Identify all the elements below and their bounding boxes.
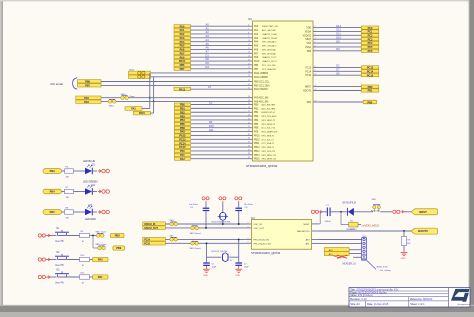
svg-text:Reference: MB1180: Reference: MB1180	[410, 298, 433, 301]
port label PC6 (right group 1)	[361, 49, 379, 53]
IC1B right pin stubs	[312, 224, 319, 244]
port label PA5 (column A row 6)	[174, 44, 191, 48]
solder bridge SB16	[121, 96, 129, 100]
wire PB7 to IC1	[191, 68, 247, 70]
svg-text:NX2012_32K768: NX2012_32K768	[212, 251, 229, 253]
svg-text:9: 9	[315, 70, 316, 72]
wire LED to power	[92, 211, 97, 213]
port label PA13 (singleton)	[174, 87, 191, 91]
svg-text:SPI1_MISO-T3: SPI1_MISO-T3	[262, 120, 276, 122]
svg-text:D1: D1	[206, 53, 210, 57]
svg-text:PA13: PA13	[179, 88, 186, 91]
wire PB6 to IC1	[191, 64, 247, 66]
svg-text:26: 26	[248, 107, 250, 109]
wire PA15 to IC1	[191, 134, 247, 136]
port label PC14	[143, 237, 166, 241]
svg-text:EVENTOUT-IO: EVENTOUT-IO	[262, 112, 276, 114]
svg-text:11: 11	[315, 85, 317, 87]
svg-text:PB0: PB0	[180, 104, 185, 107]
svg-text:PB6: PB6	[254, 65, 259, 67]
svg-text:PA6: PA6	[84, 101, 89, 104]
svg-text:10: 10	[315, 74, 317, 76]
LED LD2	[83, 180, 98, 195]
resistor R7 330	[65, 187, 74, 199]
port label PA3 (column A row 4)	[174, 36, 191, 40]
svg-text:32: 32	[248, 130, 250, 132]
svg-text:PB12: PB12	[254, 147, 260, 149]
svg-text:PA10: PA10	[179, 60, 186, 63]
ground below R3	[401, 251, 408, 261]
wire resistor to port	[90, 259, 93, 261]
svg-text:PB3: PB3	[50, 169, 56, 173]
svg-text:PA12-USBDP: PA12-USBDP	[254, 76, 268, 79]
power symbol red	[98, 210, 109, 213]
power symbol red right	[393, 210, 404, 213]
power symbol red	[98, 190, 109, 193]
svg-text:D10: D10	[209, 124, 214, 128]
port label PB8 (column B row 7)	[174, 126, 190, 130]
svg-text:25: 25	[248, 103, 250, 105]
svg-text:PA2: PA2	[131, 108, 136, 111]
svg-text:PA8: PA8	[180, 131, 185, 134]
resistor R8 330	[65, 208, 74, 220]
ground below C2	[235, 267, 242, 277]
solder bridge SB18	[108, 99, 116, 103]
port BOOT0	[411, 228, 438, 234]
svg-text:7: 7	[315, 49, 316, 51]
ST logo	[451, 289, 470, 306]
title block texts	[350, 289, 433, 306]
wire IC1 to PC4	[320, 42, 362, 44]
svg-text:PB11: PB11	[254, 143, 260, 145]
wire VCP_RX up to analog net	[150, 101, 153, 113]
svg-text:PC15: PC15	[367, 74, 374, 77]
svg-text:life.augmented: life.augmented	[458, 303, 470, 306]
svg-text:VDDIO2: VDDIO2	[303, 35, 312, 37]
svg-text:28: 28	[248, 115, 250, 117]
LED circuit LED BLUE	[43, 169, 65, 174]
svg-text:PA1: PA1	[180, 29, 185, 32]
wire resistor to LED	[74, 211, 86, 213]
svg-text:10n Filter: 10n Filter	[244, 203, 253, 206]
port label PA15 (column B row 9)	[174, 134, 190, 138]
svg-text:SPI2_SCK-T15: SPI2_SCK-T15	[262, 151, 277, 153]
svg-text:I2C1_SCL-T16: I2C1_SCL-T16	[262, 128, 276, 130]
svg-text:LD3: LD3	[88, 205, 93, 207]
wire PC14 to IC1	[191, 142, 247, 144]
brace for I2C group	[73, 78, 77, 89]
port label PF0 (column B row 13)	[174, 149, 190, 153]
svg-text:PF0-OSC32_IN: PF0-OSC32_IN	[254, 240, 270, 242]
wire BOOT0	[319, 230, 411, 232]
title block frame	[349, 288, 470, 307]
solder bridge SB8 Closed	[190, 241, 202, 250]
svg-text:PF0: PF0	[180, 150, 185, 153]
svg-text:PB7: PB7	[180, 68, 185, 71]
port label PC0 (right group 1)	[361, 26, 379, 30]
port label PB5 (column B row 6)	[174, 122, 190, 126]
svg-text:PB9: PB9	[116, 247, 121, 250]
svg-text:PC3: PC3	[368, 38, 373, 41]
svg-text:SPI1_NSS-IR: SPI1_NSS-IR	[262, 135, 275, 137]
crystal X1 NX3215SA	[212, 202, 231, 224]
port label PB3 (column B row 4)	[174, 115, 190, 119]
svg-text:PB13: PB13	[254, 151, 260, 153]
IC1 left pin stubs	[247, 25, 253, 159]
wire PB1 to IC1	[191, 107, 247, 109]
svg-text:I2C1_SCL-TIM: I2C1_SCL-TIM	[262, 65, 276, 67]
wire AT1 to header	[349, 253, 361, 255]
svg-text:PA15: PA15	[179, 135, 186, 138]
svg-text:PB6-I2C1_SCL: PB6-I2C1_SCL	[254, 82, 270, 84]
svg-text:WKUP-TIM2_CH1: WKUP-TIM2_CH1	[262, 26, 279, 28]
svg-text:VBAT: VBAT	[305, 38, 311, 41]
svg-text:PB1: PB1	[254, 108, 259, 110]
svg-text:PB4: PB4	[50, 190, 56, 194]
svg-text:VSSA: VSSA	[305, 46, 312, 49]
port label PA15 (VCP_RX)	[133, 111, 150, 115]
wire IC1 to PC15	[320, 74, 362, 76]
svg-text:2: 2	[248, 222, 249, 224]
wire PC15 to IC1B	[165, 242, 246, 244]
port label PB1 (column B row 2)	[174, 107, 190, 111]
svg-text:Size: A4: Size: A4	[350, 303, 360, 306]
svg-text:4: 4	[248, 238, 249, 240]
svg-text:33: 33	[248, 134, 250, 136]
svg-text:USART2_RX-A3: USART2_RX-A3	[262, 37, 278, 40]
wire LED to power	[92, 170, 97, 172]
svg-text:PA7: PA7	[180, 52, 185, 55]
svg-text:D3: D3	[336, 47, 340, 51]
svg-text:9: 9	[248, 36, 249, 38]
svg-text:GND: GND	[401, 258, 406, 260]
junction	[153, 100, 155, 102]
svg-text:4: 4	[315, 38, 316, 40]
wire resistor to port	[90, 276, 93, 278]
svg-text:I2C serial: I2C serial	[51, 82, 64, 86]
svg-text:PA15: PA15	[139, 112, 145, 115]
svg-text:PC2: PC2	[368, 34, 373, 37]
note text AVDD shifting	[377, 266, 391, 272]
svg-text:D4: D4	[206, 65, 210, 69]
junction C3	[238, 223, 240, 225]
svg-text:17: 17	[248, 67, 250, 69]
svg-text:PC13: PC13	[305, 67, 311, 69]
wire PA3 to IC1	[191, 37, 247, 39]
svg-text:PB15: PB15	[254, 159, 260, 161]
wire PA4 to IC1	[191, 41, 247, 43]
svg-text:PC15: PC15	[305, 75, 311, 77]
svg-text:PB3: PB3	[254, 116, 259, 118]
wire NRST pull branch	[341, 212, 349, 225]
svg-text:D12: D12	[336, 28, 341, 32]
wire AT0 to header	[349, 249, 361, 251]
svg-text:PC14: PC14	[367, 70, 374, 73]
port label PA1 (column A row 2)	[174, 29, 191, 33]
svg-text:GND: GND	[235, 275, 240, 277]
crystal X2 NX2012	[207, 251, 239, 262]
svg-text:SPI1_SCK-ADC: SPI1_SCK-ADC	[262, 45, 277, 48]
svg-text:PC14: PC14	[305, 71, 311, 73]
svg-text:PA1: PA1	[98, 276, 103, 279]
port label PA7 (column A row 8)	[174, 52, 191, 56]
svg-text:8: 8	[315, 66, 316, 68]
port label PC4 (right group 1)	[361, 41, 379, 45]
port label PA8 (column B row 8)	[174, 130, 190, 134]
svg-text:SB8 Closed: SB8 Closed	[190, 248, 202, 250]
svg-text:D13: D13	[336, 24, 341, 28]
svg-text:31: 31	[248, 126, 250, 128]
VDD power symbol (middle)	[219, 197, 226, 203]
svg-text:D5: D5	[206, 61, 210, 65]
svg-text:PB3: PB3	[180, 115, 185, 118]
svg-text:IC1: IC1	[251, 217, 255, 220]
svg-text:SPI1_NSS-ADC: SPI1_NSS-ADC	[262, 41, 277, 44]
capacitor C4 10n Filter	[189, 202, 209, 228]
port label PC3 (right group 1)	[361, 38, 379, 42]
svg-text:Date: 21-Dec-2015: Date: 21-Dec-2015	[367, 303, 389, 306]
wire PB5 to IC1	[191, 123, 247, 125]
junction C4	[205, 227, 207, 229]
port label PB9	[113, 246, 125, 250]
svg-text:24: 24	[248, 100, 250, 102]
svg-text:PB4: PB4	[307, 102, 312, 104]
port label PC2 (right group 1)	[361, 34, 379, 38]
LED LD3	[85, 205, 96, 221]
wire resistor to LED	[74, 191, 86, 193]
svg-text:10: 10	[248, 40, 250, 42]
svg-text:15: 15	[248, 59, 250, 61]
wire SB9 to power	[380, 211, 392, 213]
svg-text:SPI2_MISO-T15: SPI2_MISO-T15	[262, 155, 278, 157]
wire LED to power	[92, 191, 97, 193]
svg-text:PB6: PB6	[180, 64, 185, 67]
wire button to resistor R9	[58, 235, 80, 237]
power symbol for button B2	[38, 258, 50, 261]
svg-text:NRST: NRST	[305, 87, 312, 89]
svg-text:LED GREEN: LED GREEN	[83, 180, 98, 183]
wire resistor to junction	[90, 235, 97, 237]
wire vertical SB14 down	[153, 77, 155, 102]
junction C2	[238, 238, 240, 240]
wire PA5 to IC1	[191, 45, 247, 47]
svg-text:User PB: User PB	[55, 240, 64, 243]
svg-text:MCO-USART1CK: MCO-USART1CK	[262, 131, 279, 134]
svg-text:PC6: PC6	[368, 50, 373, 53]
junction	[92, 235, 94, 237]
svg-text:27: 27	[248, 111, 250, 113]
svg-text:PA0: PA0	[180, 25, 185, 28]
port label PC13 (column B row 10)	[174, 138, 190, 142]
svg-text:PA6-ADC_IN6: PA6-ADC_IN6	[254, 100, 269, 103]
capacitor C3 10n Filter	[235, 202, 253, 224]
port label PA4 (column A row 5)	[174, 40, 191, 44]
wire PB3 to IC1	[191, 115, 247, 117]
svg-text:PD1: PD1	[368, 90, 373, 93]
wire PA13 to IC1	[191, 88, 247, 90]
port label PC15	[143, 241, 166, 245]
svg-text:PF1: PF1	[180, 154, 185, 157]
svg-text:GND: GND	[203, 275, 208, 277]
svg-text:OSC_IN: OSC_IN	[254, 224, 263, 226]
svg-text:+5V_shifting: +5V_shifting	[380, 269, 391, 272]
svg-text:PC4: PC4	[368, 42, 373, 45]
svg-text:6: 6	[315, 45, 316, 47]
svg-text:PB2: PB2	[180, 111, 185, 114]
svg-text:ADC_IN8-TIM3: ADC_IN8-TIM3	[262, 104, 277, 107]
svg-text:USART1_RX-T1: USART1_RX-T1	[262, 60, 278, 63]
svg-text:LED BLUE: LED BLUE	[83, 160, 95, 163]
resistor R4	[349, 220, 358, 231]
svg-text:SPI1_MOSI-T3: SPI1_MOSI-T3	[262, 124, 276, 126]
svg-text:23: 23	[248, 96, 250, 98]
wire to button B1	[50, 235, 57, 237]
svg-text:PB8: PB8	[180, 127, 185, 130]
svg-text:11: 11	[248, 44, 250, 46]
svg-text:19: 19	[248, 75, 250, 77]
svg-text:LD2: LD2	[91, 185, 96, 187]
port label PA0	[93, 257, 109, 261]
svg-text:PC1: PC1	[368, 31, 373, 34]
svg-text:PA2: PA2	[180, 158, 185, 161]
svg-text:Reset SB: Reset SB	[371, 209, 380, 212]
svg-text:LED RED: LED RED	[85, 218, 96, 221]
diode D1 BAT60JFILM	[343, 202, 356, 216]
svg-text:PB7: PB7	[254, 69, 259, 71]
svg-text:PB4: PB4	[307, 51, 312, 53]
wire PB2 to IC1	[191, 111, 247, 113]
wire resistor to LED	[74, 170, 86, 172]
svg-text:PA6: PA6	[180, 49, 185, 52]
port label PC1 (right group 1)	[361, 30, 379, 34]
svg-text:NRST: NRST	[419, 210, 427, 214]
wire OSC32_IN to IC1B	[165, 223, 246, 225]
svg-text:HEADER_IO: HEADER_IO	[343, 262, 356, 265]
port label PC14 (column B row 11)	[174, 142, 190, 146]
svg-text:SPI1_SCK-SWO: SPI1_SCK-SWO	[262, 116, 277, 118]
solder bridge SB5 Closed	[170, 236, 178, 242]
port label PB7 (column A row 12)	[174, 67, 191, 71]
svg-text:29: 29	[248, 118, 250, 120]
port label PA0 (column A row 1)	[174, 25, 191, 29]
svg-text:38: 38	[248, 153, 250, 155]
wire PF0 to IC1	[191, 150, 247, 152]
svg-text:Sheet: 2 of 4: Sheet: 2 of 4	[410, 303, 425, 306]
port label PC15 (right group 2)	[361, 74, 379, 78]
svg-text:D9: D9	[336, 39, 340, 43]
wire I2C SDA to IC1	[101, 84, 247, 86]
annotation arrow to note	[367, 261, 376, 270]
IC1 right pin names	[303, 28, 312, 104]
wire to button B2	[50, 259, 57, 261]
svg-text:PB8: PB8	[115, 235, 120, 238]
svg-text:VDDA: VDDA	[305, 30, 312, 33]
wire PC15 to IC1	[191, 146, 247, 148]
svg-text:10pF: 10pF	[212, 267, 217, 269]
svg-text:D10: D10	[336, 35, 341, 39]
connector CN2 HEADER_IO	[343, 236, 368, 265]
red cross (DNF)	[333, 255, 348, 258]
wire IC1 to PC6	[320, 50, 362, 52]
svg-text:D7: D7	[336, 68, 340, 72]
port label PC14 (right group 2)	[361, 70, 379, 74]
solder bridge SB19	[98, 246, 106, 250]
wire IC1B to header pin2	[319, 242, 361, 244]
wire PA6 to IC1	[101, 100, 247, 102]
port label PC13 (right group 2)	[361, 66, 379, 70]
push button B1 User PB	[55, 228, 69, 243]
wire IC1 to PC0	[320, 27, 362, 29]
svg-text:12: 12	[315, 89, 317, 91]
svg-text:BOOT0: BOOT0	[303, 91, 311, 93]
svg-text:16: 16	[248, 63, 250, 65]
svg-text:PA15: PA15	[254, 134, 260, 137]
resistor R11 1K	[80, 273, 90, 285]
capacitor C2 10pF	[235, 239, 249, 268]
LED circuit LED GREEN	[43, 189, 65, 194]
svg-text:21: 21	[248, 84, 250, 86]
svg-text:3: 3	[248, 226, 249, 228]
svg-text:3: 3	[315, 34, 316, 36]
svg-text:Value: P/N (product): Value: P/N (product)	[350, 294, 373, 297]
svg-text:SB18: SB18	[109, 106, 115, 108]
svg-text:I2C1_SDA-TIM: I2C1_SDA-TIM	[262, 68, 276, 71]
bottom page edge shadow	[0, 305, 474, 312]
port label PA2 (VCP_TX)	[125, 107, 142, 111]
svg-text:PC5: PC5	[368, 46, 373, 49]
svg-text:20: 20	[248, 80, 250, 82]
svg-text:ADC_IN9-TIM3: ADC_IN9-TIM3	[262, 107, 277, 110]
svg-text:PB1: PB1	[180, 108, 185, 111]
junction X1	[222, 223, 224, 225]
svg-text:SPI2_NSS-T1: SPI2_NSS-T1	[262, 147, 275, 149]
wire R3 to ground	[403, 246, 405, 251]
svg-text:VDD: VDD	[306, 28, 311, 30]
port label PB6 (column A row 11)	[174, 63, 191, 67]
wire PB0 to IC1	[191, 104, 247, 106]
port label PA1	[93, 275, 109, 279]
wire IC1 to PC14	[320, 70, 362, 72]
solder bridge SB6 Closed	[190, 226, 202, 235]
svg-text:AVDD_STM: AVDD_STM	[377, 266, 388, 269]
IC1 STM32 MCU main I/O block	[246, 18, 313, 168]
svg-text:5: 5	[315, 41, 316, 43]
capacitor C7 100nF (series)	[325, 205, 332, 223]
port label PA9 (column A row 9)	[174, 56, 191, 60]
svg-text:14: 14	[248, 56, 250, 58]
port label PB6 (I2C SCL)	[78, 80, 102, 84]
svg-text:SB16: SB16	[121, 94, 127, 96]
svg-text:IC1: IC1	[248, 18, 253, 21]
svg-text:(+VDD_MCU: (+VDD_MCU	[362, 224, 380, 228]
svg-text:PC15: PC15	[144, 243, 150, 245]
svg-text:STM32F042K6_QFP32: STM32F042K6_QFP32	[246, 164, 278, 168]
wire PA9 to IC1	[191, 56, 247, 58]
port label OSC32_IN	[143, 222, 166, 226]
svg-text:Revision: C-02: Revision: C-02	[350, 298, 367, 301]
svg-text:PA9: PA9	[180, 56, 185, 59]
wire PA8 to IC1	[191, 131, 247, 133]
port label PB0 (column B row 1)	[174, 103, 190, 107]
svg-text:SPI2_MOSI-T15: SPI2_MOSI-T15	[262, 159, 278, 161]
port label PF1 (column B row 14)	[174, 153, 190, 157]
svg-text:D9: D9	[209, 120, 213, 124]
VDD power symbol (left)	[202, 197, 209, 203]
svg-text:PB5: PB5	[180, 123, 185, 126]
wire IC1 to PC1	[320, 30, 362, 32]
solder bridge SB4 Closed	[170, 220, 178, 226]
wire branch down	[93, 236, 98, 249]
